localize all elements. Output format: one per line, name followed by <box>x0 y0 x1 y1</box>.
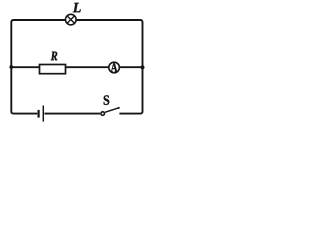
label S <box>104 95 110 105</box>
node left junction <box>9 65 13 69</box>
switch S <box>100 107 120 115</box>
lamp L <box>66 14 77 25</box>
wire outer loop frame <box>11 20 142 114</box>
wire middle branch <box>11 66 142 68</box>
battery cell <box>37 106 44 122</box>
resistor R1 <box>40 65 66 74</box>
label L <box>73 3 81 12</box>
node right junction <box>141 65 145 69</box>
label R <box>51 52 58 61</box>
ammeter A <box>109 62 120 73</box>
